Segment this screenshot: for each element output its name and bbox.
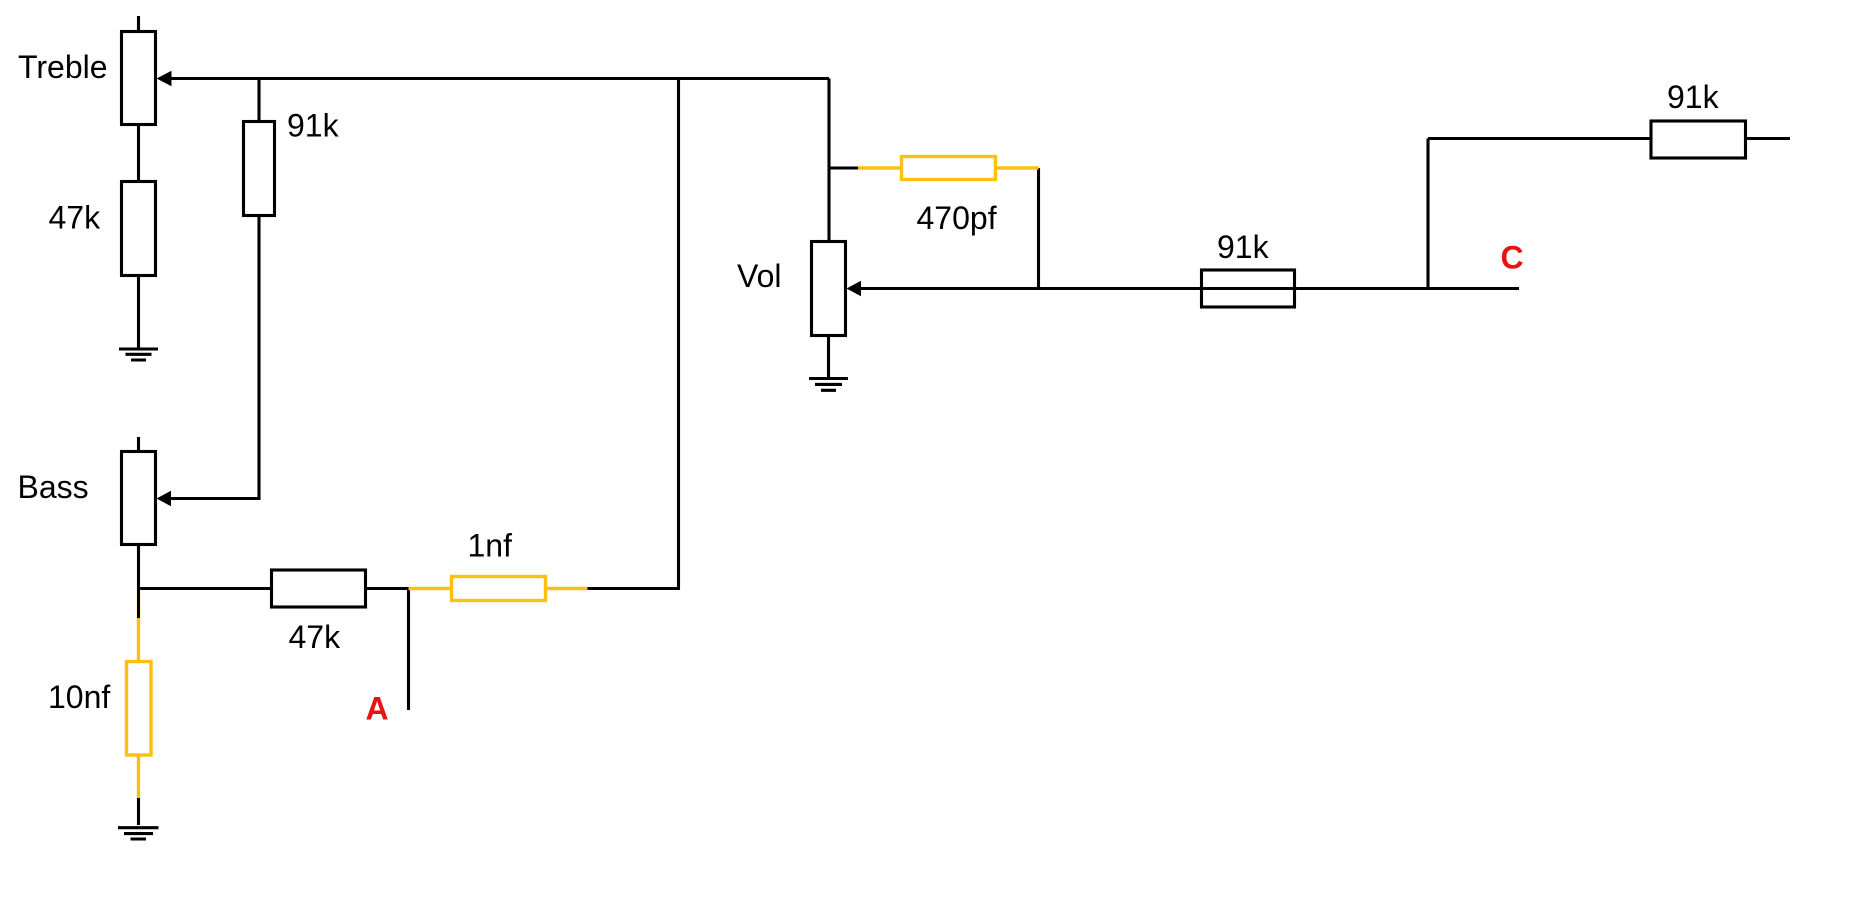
wire: riser to 91k top right xyxy=(1428,137,1652,140)
wire: output right xyxy=(1746,137,1791,140)
resistor 91k (left vertical) body xyxy=(244,122,275,216)
wire: junction to 10nf (black overdraw) xyxy=(137,589,140,619)
wire: 91k down to Bass wiper xyxy=(170,216,259,499)
capacitor 10nf top lead xyxy=(137,589,140,662)
ground below 47k xyxy=(119,349,158,360)
potentiometer Vol wiper arrow xyxy=(847,281,862,296)
wire: junction to 47k horizontal xyxy=(139,587,272,590)
capacitor 1nf body xyxy=(452,577,546,601)
svg-text:470pf: 470pf xyxy=(917,200,997,236)
wire: 1nf to riser, riser up to top bus xyxy=(588,79,679,589)
potentiometer Bass wiper arrow xyxy=(157,491,172,506)
svg-text:91k: 91k xyxy=(1217,229,1270,265)
capacitor 1nf left lead xyxy=(409,587,452,590)
resistor 91k (middle horizontal) body xyxy=(1202,270,1295,307)
svg-text:10nf: 10nf xyxy=(48,679,110,715)
ground below Vol: stem xyxy=(827,336,830,378)
wire: top bus xyxy=(169,77,829,80)
wire: 47k to node A junction xyxy=(366,587,409,590)
wire: 47k to ground xyxy=(137,276,140,348)
capacitor 470pf left lead xyxy=(858,166,902,169)
svg-text:91k: 91k xyxy=(287,108,340,144)
svg-text:47k: 47k xyxy=(289,619,342,655)
potentiometer Treble body xyxy=(122,32,156,125)
wire: riser up from wiper bus xyxy=(1426,139,1429,289)
node A stub xyxy=(407,589,410,711)
wire: bus down to 91k xyxy=(257,79,260,122)
svg-text:A: A xyxy=(366,691,389,727)
wire: bus down to Vol pot xyxy=(827,79,830,242)
wire: Bass bottom to junction xyxy=(137,545,140,589)
svg-text:91k: 91k xyxy=(1667,79,1720,115)
svg-text:C: C xyxy=(1501,240,1524,276)
potentiometer Treble top stub xyxy=(137,16,140,31)
wire: 10nf bottom black lead xyxy=(137,798,140,825)
svg-text:Vol: Vol xyxy=(737,258,781,294)
wire: 470pf right lead down to wiper bus xyxy=(1037,168,1040,289)
resistor 47k (vertical) body xyxy=(122,182,156,276)
capacitor 10nf body xyxy=(127,662,152,756)
capacitor 10nf bottom lead xyxy=(137,755,140,798)
potentiometer Treble wiper arrow xyxy=(157,71,172,87)
potentiometer Bass body xyxy=(122,452,156,545)
svg-text:Treble: Treble xyxy=(18,49,108,85)
svg-text:Bass: Bass xyxy=(18,469,89,505)
svg-text:47k: 47k xyxy=(49,200,102,236)
capacitor 1nf right lead xyxy=(546,587,588,590)
wire: Vol wiper bus xyxy=(860,287,1519,290)
capacitor 470pf body xyxy=(902,157,996,180)
potentiometer Bass top stub xyxy=(137,437,140,451)
resistor 47k (horizontal) body xyxy=(272,570,366,607)
potentiometer Vol body xyxy=(812,242,846,336)
wire: Vol node to 470pf xyxy=(829,166,858,169)
resistor 91k (top right) body xyxy=(1651,121,1746,158)
ground below 10nf xyxy=(118,828,159,839)
wire: Treble to 47k xyxy=(137,125,140,182)
capacitor 470pf right lead xyxy=(996,166,1039,169)
svg-text:1nf: 1nf xyxy=(468,528,513,564)
ground below Vol bars xyxy=(809,379,848,391)
